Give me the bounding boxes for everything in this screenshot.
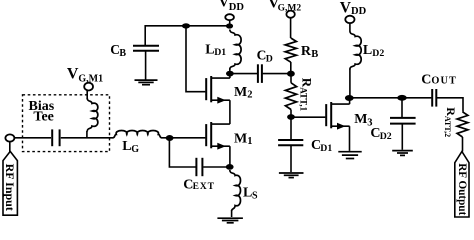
svg-text:DD: DD: [351, 6, 367, 17]
svg-text:S: S: [252, 190, 258, 201]
svg-text:R: R: [301, 44, 312, 59]
svg-text:M: M: [354, 112, 367, 127]
svg-text:C: C: [421, 72, 431, 87]
svg-text:1: 1: [247, 136, 252, 147]
svg-text:D1: D1: [214, 47, 226, 58]
svg-text:L: L: [363, 43, 372, 58]
svg-text:2: 2: [247, 89, 252, 100]
svg-text:V: V: [340, 0, 352, 17]
svg-text:L: L: [243, 185, 252, 200]
svg-text:G: G: [131, 144, 139, 155]
svg-text:D2: D2: [372, 48, 384, 59]
svg-text:D: D: [266, 54, 273, 65]
svg-text:V: V: [219, 0, 229, 10]
svg-text:M: M: [234, 85, 247, 100]
svg-text:Tee: Tee: [33, 110, 53, 125]
svg-text:B: B: [311, 49, 318, 60]
svg-text:L: L: [205, 43, 214, 58]
svg-text:RF Output: RF Output: [456, 163, 468, 215]
svg-text:D2: D2: [380, 131, 392, 142]
svg-text:L: L: [122, 139, 131, 154]
svg-text:V: V: [67, 66, 79, 83]
svg-text:G,M2: G,M2: [278, 3, 302, 13]
svg-text:G,M1: G,M1: [78, 73, 103, 84]
svg-text:RF Input: RF Input: [3, 164, 17, 211]
svg-text:B: B: [119, 48, 126, 59]
svg-text:OUT: OUT: [431, 76, 457, 87]
svg-text:D1: D1: [320, 143, 332, 154]
svg-text:DD: DD: [229, 2, 245, 13]
svg-text:EXT: EXT: [193, 182, 215, 192]
svg-text:M: M: [234, 131, 247, 146]
